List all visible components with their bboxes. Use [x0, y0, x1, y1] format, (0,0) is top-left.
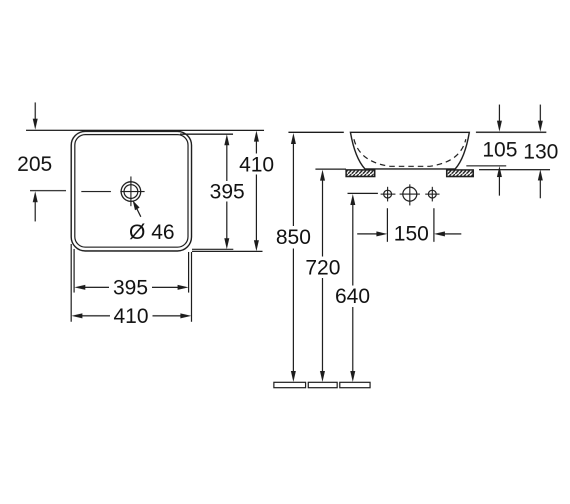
basin inner bowl (dashed): [354, 139, 466, 166]
svg-text:205: 205: [17, 153, 52, 176]
svg-text:850: 850: [276, 226, 311, 249]
counter level extension line (right, 130 reference): [479, 169, 550, 171]
drain inner circle: [124, 185, 138, 199]
dimension 130 arrows: [539, 105, 541, 127]
svg-text:395: 395: [113, 276, 148, 299]
dimension 850 vertical: [292, 139, 294, 227]
extension lines below taps for 150 dim: [386, 208, 388, 242]
floor reference box 1: [274, 382, 306, 387]
svg-text:Ø 46: Ø 46: [129, 221, 175, 244]
dimension 150 (outside arrows): [357, 233, 378, 235]
counter cross-section right (hatched): [447, 170, 474, 177]
outer bottom extension line: [192, 250, 262, 252]
basin inner rim outline (top view): [75, 135, 188, 248]
dimension 395 vertical (top view, right of basin): [226, 139, 228, 181]
extension lines below basin for width dims: [70, 244, 72, 322]
floor reference box 3: [340, 382, 370, 387]
svg-text:640: 640: [335, 285, 370, 308]
svg-text:150: 150: [394, 223, 429, 246]
dimension 410 vertical (top view, far right): [255, 136, 257, 154]
tap hole right (circle + cross): [425, 193, 439, 195]
dimension 410 horizontal (outer width): [77, 315, 110, 317]
drain centre line horizontal: [81, 191, 111, 193]
inner rim bottom extension line: [192, 248, 233, 250]
basin profile outline (side view): [350, 132, 469, 169]
inner rim top extension line: [180, 133, 233, 135]
svg-text:410: 410: [239, 153, 274, 176]
svg-text:410: 410: [113, 305, 148, 328]
tap hole left (circle + cross): [381, 193, 396, 195]
inner bottom extension line (105 reference): [466, 165, 506, 167]
svg-text:130: 130: [523, 141, 558, 164]
svg-text:720: 720: [305, 257, 340, 280]
tap line extension (640 reference): [348, 192, 378, 194]
dimension 720 vertical: [321, 175, 323, 257]
counter level extension line (left, 720 reference): [315, 168, 346, 170]
leader arrow for drain diameter: [137, 209, 141, 217]
dimension 640 vertical: [352, 200, 354, 286]
top reference extension line, right of basin: [476, 131, 546, 133]
counter cross-section left (hatched): [346, 170, 375, 177]
drain centre line vertical: [130, 176, 132, 206]
extension line at drain centre height (left): [30, 190, 66, 192]
svg-text:395: 395: [210, 180, 245, 203]
dimension 105 arrows: [498, 105, 500, 127]
drain outer circle: [121, 182, 141, 202]
top tangent extension line (outer top reference): [26, 129, 264, 131]
svg-text:105: 105: [482, 139, 517, 162]
dimension 205 (dim line + arrows, left): [34, 102, 36, 124]
top reference extension line, left of basin: [288, 131, 343, 133]
tap hole middle (circle + cross): [400, 193, 420, 195]
floor reference box 2: [308, 382, 337, 387]
dimension 395 horizontal (inner width): [80, 286, 109, 288]
basin outer outline (rounded square, top view): [71, 131, 191, 251]
